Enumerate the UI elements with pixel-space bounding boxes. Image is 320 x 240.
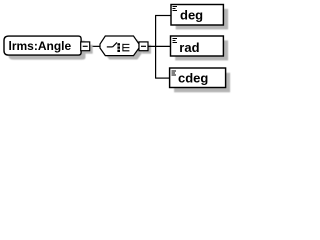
deg simple-content icon [173,6,177,11]
svg-text:lrms:Angle: lrms:Angle [9,39,72,53]
expand box 2 (minus) [139,42,148,51]
rad simple-content icon [173,38,177,43]
expand box 2 shadow [142,45,151,54]
cdeg simple-content icon [172,71,176,76]
element cdeg [170,68,226,88]
choice compositor [100,36,139,56]
wire choice to branch [148,45,171,47]
wire branch to cdeg [155,77,170,79]
branch vertical line [155,16,157,79]
choice icon comb [123,44,129,52]
svg-text:cdeg: cdeg [178,70,208,85]
wire lrms:Angle to choice [90,45,101,47]
element lrms:Angle [4,36,81,55]
choice icon contact squares [117,43,120,45]
element deg shadow [176,9,228,30]
element rad [171,36,224,56]
element rad shadow [175,40,228,60]
element lrms:Angle shadow [8,41,85,60]
choice compositor shadow [104,40,143,60]
choice icon switch lever [113,42,117,47]
wire branch to deg [155,15,171,17]
svg-text:deg: deg [180,8,203,23]
expand box 1 (minus) [81,42,90,51]
expand box 1 shadow [84,45,93,54]
element deg [171,5,223,26]
choice icon switch input [107,46,113,48]
element cdeg shadow [174,73,230,93]
svg-text:rad: rad [179,40,199,55]
